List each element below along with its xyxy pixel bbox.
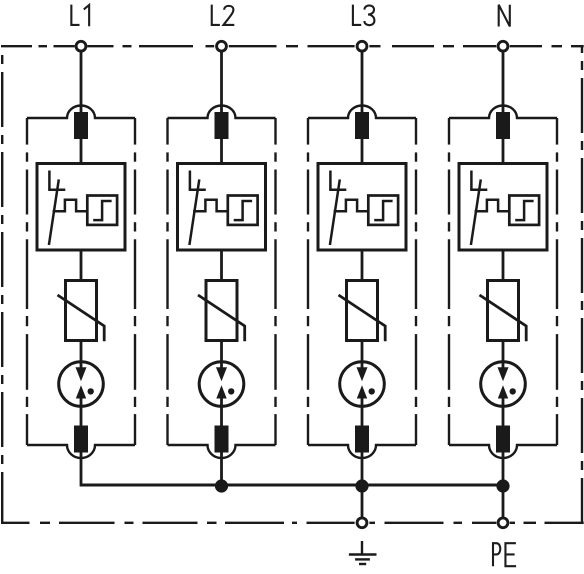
varistor N (480, 281, 527, 342)
wire N drop to PE bus (502, 451, 505, 487)
device outline border (dash-dot), left side (1, 45, 3, 523)
PE terminal circle (498, 518, 508, 528)
label L1 (71, 5, 89, 27)
wire L1 drop to PE bus (80, 451, 83, 487)
PE bus wire (horizontal) (81, 484, 503, 487)
wire contact to spark gap N (502, 139, 505, 165)
wire bus to earth terminal (361, 485, 364, 518)
junction dot L2/PE bus (215, 479, 228, 492)
terminal contact top N (black plug contact) (496, 112, 510, 139)
wire disconnector to bottom contact L2 (220, 405, 223, 427)
wire N terminal to module (502, 53, 505, 117)
varistor L2 (198, 281, 245, 342)
protection module box L3 (dash-dot outline with plug-in arcs) (308, 105, 416, 458)
wire L3 terminal to module (361, 53, 364, 117)
junction dot N/PE bus (496, 479, 509, 492)
wire spark gap to varistor N (502, 250, 505, 282)
label L2 (212, 5, 235, 25)
wire bus to PE terminal (502, 485, 505, 518)
spark gap with trigger circuit L1 (37, 164, 125, 251)
spark gap with trigger circuit N (459, 164, 547, 251)
wire disconnector to bottom contact N (502, 405, 505, 427)
spark gap with trigger circuit L2 (178, 164, 266, 251)
thermal disconnector with indicator L2 (199, 362, 244, 407)
node L3 terminal circle (357, 41, 367, 51)
terminal contact top L1 (black plug contact) (74, 112, 88, 139)
wire L1 terminal to module (80, 53, 83, 117)
label PE (493, 543, 516, 566)
wire spark gap to varistor L3 (361, 250, 364, 282)
wire L2 terminal to module (220, 53, 223, 117)
wire spark gap to varistor L1 (80, 250, 83, 282)
wire varistor to disconnector L3 (361, 341, 364, 364)
terminal contact bottom N (black plug contact) (496, 426, 510, 453)
device outline border (dash-dot), bottom side (1, 522, 584, 524)
node L2 terminal circle (217, 41, 227, 51)
terminal contact bottom L2 (black plug contact) (215, 426, 229, 453)
wire disconnector to bottom contact L3 (361, 405, 364, 427)
terminal contact bottom L1 (black plug contact) (74, 426, 88, 453)
thermal disconnector with indicator L1 (59, 362, 104, 407)
protection module box L2 (dash-dot outline with plug-in arcs) (168, 105, 276, 458)
wire varistor to disconnector N (502, 341, 505, 364)
varistor L1 (58, 281, 105, 342)
node N terminal circle (498, 41, 508, 51)
wire L2 drop to PE bus (220, 451, 223, 487)
wire contact to spark gap L2 (220, 139, 223, 165)
wire contact to spark gap L1 (80, 139, 83, 165)
thermal disconnector with indicator L3 (340, 362, 385, 407)
terminal contact bottom L3 (black plug contact) (355, 426, 369, 453)
protection module box N (dash-dot outline with plug-in arcs) (449, 105, 557, 458)
node L1 terminal circle (76, 41, 86, 51)
label N (499, 5, 510, 27)
wire disconnector to bottom contact L1 (80, 405, 83, 427)
label L3 (353, 5, 375, 26)
device outline border (dash-dot), right side (581, 46, 583, 523)
wire contact to spark gap L3 (361, 139, 364, 165)
wire varistor to disconnector L2 (220, 341, 223, 364)
earth terminal circle (357, 518, 367, 528)
junction dot L3/PE bus (355, 479, 368, 492)
wire varistor to disconnector L1 (80, 341, 83, 364)
ground symbol (349, 541, 377, 564)
terminal contact top L2 (black plug contact) (215, 112, 229, 139)
wire L3 drop to PE bus (361, 451, 364, 487)
device outline border (dash-dot), top side (1, 45, 584, 47)
thermal disconnector with indicator N (481, 362, 526, 407)
wire spark gap to varistor L2 (220, 250, 223, 282)
terminal contact top L3 (black plug contact) (355, 112, 369, 139)
spark gap with trigger circuit L3 (318, 164, 406, 251)
protection module box L1 (dash-dot outline with plug-in arcs) (27, 105, 135, 458)
varistor L3 (339, 281, 386, 342)
